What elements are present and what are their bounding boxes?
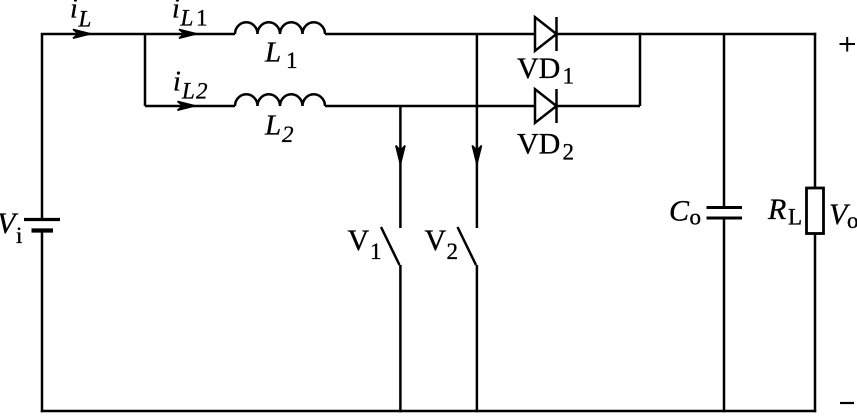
inductor L1 (235, 22, 325, 34)
svg-text:2: 2 (196, 79, 208, 104)
wire bottom rail (41, 410, 816, 413)
svg-text:L: L (788, 205, 802, 230)
wire capacitor branch lower (723, 219, 726, 412)
svg-text:o: o (690, 205, 702, 230)
wire right vertical lower (RL to bottom rail) (814, 233, 817, 412)
svg-text:i: i (173, 67, 181, 98)
arrow V1 current (396, 146, 405, 165)
plus sign (840, 37, 856, 52)
svg-text:L: L (78, 6, 92, 31)
capacitor Co (707, 208, 743, 219)
svg-text:C: C (669, 195, 690, 228)
svg-text:i: i (172, 0, 180, 25)
wire V1 drop lower (399, 265, 402, 412)
wire capacitor branch upper (723, 34, 726, 206)
svg-text:1: 1 (196, 6, 208, 31)
switch V2 blade (458, 227, 477, 265)
switch V1 blade (381, 227, 400, 265)
wire V2 drop lower (476, 265, 479, 412)
svg-text:L: L (181, 79, 195, 104)
svg-text:R: R (767, 193, 786, 226)
label Vo (829, 198, 857, 233)
label iL1 (172, 0, 208, 31)
arrow V2 current (472, 146, 481, 165)
svg-text:2: 2 (282, 122, 294, 147)
label Co (669, 195, 701, 230)
svg-text:i: i (16, 223, 22, 248)
current arrow iL (73, 29, 91, 38)
diode VD1 (535, 17, 557, 51)
svg-text:L: L (180, 6, 194, 31)
wire right vertical upper (top rail to RL) (814, 33, 817, 188)
label V1 (348, 224, 382, 264)
battery Vi (24, 220, 60, 231)
svg-text:L: L (264, 36, 281, 68)
label iL (70, 0, 91, 31)
current arrow iL2 (178, 101, 196, 110)
label iL2 (173, 67, 208, 104)
svg-text:i: i (70, 0, 78, 25)
svg-text:1: 1 (370, 239, 382, 264)
wire branch 2 horizontal (145, 105, 640, 108)
svg-text:2: 2 (563, 139, 575, 164)
wire top rail (41, 33, 816, 36)
label V2 (425, 224, 459, 264)
label L1 (264, 36, 298, 73)
wire V2 drop upper (476, 34, 479, 228)
svg-text:2: 2 (447, 239, 459, 264)
label VD1 (517, 52, 574, 89)
svg-text:V: V (425, 224, 447, 257)
label RL (767, 193, 802, 230)
resistor RL (807, 188, 824, 234)
inductor L2 (235, 94, 325, 106)
svg-text:o: o (847, 208, 857, 233)
wire left vertical lower (Vi bottom to bottom rail) (41, 232, 44, 412)
svg-text:1: 1 (563, 64, 575, 89)
svg-text:VD: VD (517, 128, 560, 161)
label VD2 (517, 128, 574, 165)
wire V1 drop upper (399, 106, 402, 228)
svg-text:1: 1 (286, 48, 298, 73)
label L2 (264, 109, 294, 147)
label Vi (0, 207, 22, 248)
wire VD2 output riser (639, 33, 642, 106)
svg-text:L: L (264, 109, 281, 141)
svg-text:V: V (348, 224, 370, 257)
minus sign (840, 402, 854, 404)
diode VD2 (535, 89, 557, 123)
current arrow iL1 (179, 29, 197, 38)
svg-text:VD: VD (517, 52, 560, 85)
wire left vertical upper (Vi top to top rail) (41, 34, 44, 218)
node split vertical (iL to L2 branch) (144, 34, 147, 106)
